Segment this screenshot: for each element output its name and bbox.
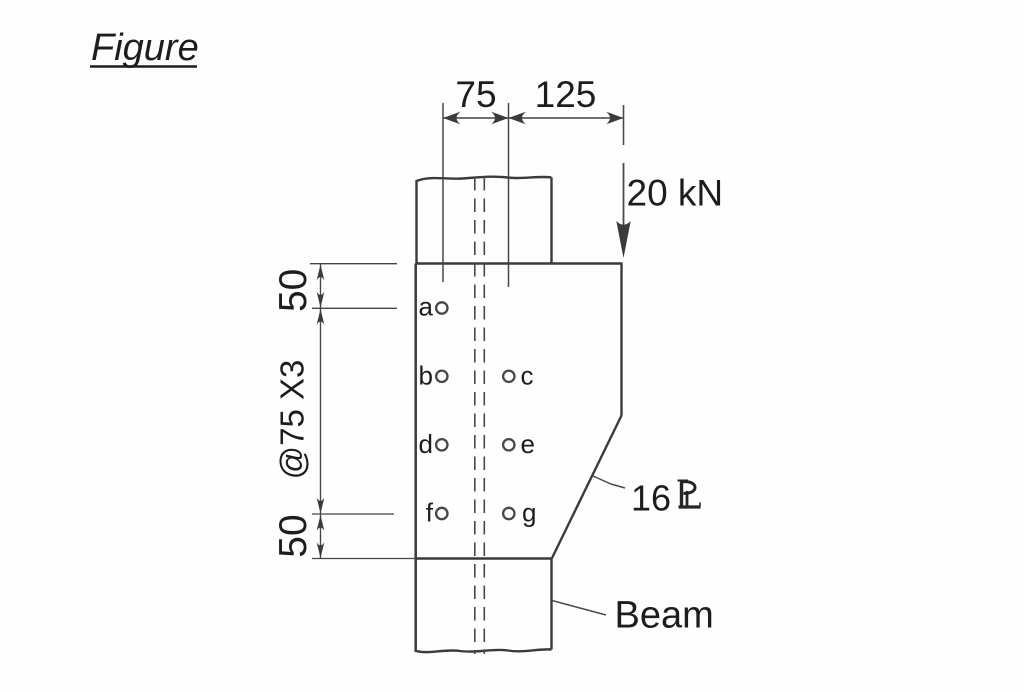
- svg-text:@75 X3: @75 X3: [274, 360, 311, 480]
- leader line to Beam: [552, 601, 606, 616]
- arrow left tip at 508.5 (125 dim): [509, 112, 527, 125]
- svg-text:16: 16: [631, 478, 671, 519]
- svg-text:c: c: [521, 360, 534, 390]
- bolt hole d: [436, 439, 447, 450]
- arrow up tip 514.5 (seg3): [317, 515, 325, 531]
- extension line at x=443 (75 dim left): [442, 103, 444, 282]
- gusset plate right edge: [620, 264, 622, 416]
- bolt gauge centerline right (dashed): [483, 177, 485, 654]
- plate symbol PL: [678, 481, 701, 508]
- bolt hole c: [503, 371, 514, 382]
- left extension line y=308 (row a): [312, 307, 397, 309]
- arrow up tip 263.7: [317, 265, 325, 281]
- 20 kN force line dashed upper part: [623, 105, 625, 145]
- top member (column stub) wavy break top edge: [417, 177, 552, 181]
- top dimension line y=118: [443, 117, 624, 119]
- bolt hole a: [436, 302, 447, 313]
- bolt hole b: [436, 371, 447, 382]
- beam wavy break bottom edge: [415, 649, 552, 652]
- top member right edge: [550, 178, 552, 264]
- left extension line y=263.5: [310, 263, 397, 265]
- bolt hole e: [503, 439, 514, 450]
- left vertical dimension line x=320.5: [320, 264, 322, 559]
- gusset plate / beam left edge: [414, 264, 417, 652]
- gusset plate top edge: [416, 262, 623, 265]
- bolt hole f: [436, 508, 447, 519]
- arrow up tip 308.5 (seg2): [317, 309, 325, 325]
- leader line to 16 PL: [593, 476, 625, 488]
- arrow down tip 558 (seg3): [317, 542, 325, 558]
- svg-text:b: b: [419, 360, 433, 390]
- svg-text:a: a: [419, 292, 434, 322]
- arrow right tip at 508.5 (75 dim): [491, 112, 509, 125]
- arrow down tip 308 (seg1): [317, 292, 325, 308]
- top member left edge: [415, 180, 417, 264]
- 20 kN arrowhead: [616, 221, 630, 258]
- svg-text:d: d: [419, 429, 433, 459]
- arrow right tip at 623.5 (125 dim): [606, 112, 624, 125]
- bolt hole g: [503, 508, 514, 519]
- gusset plate bottom / beam top edge: [416, 557, 553, 560]
- svg-text:75: 75: [455, 74, 496, 115]
- title underline: [90, 65, 197, 67]
- svg-text:125: 125: [535, 74, 597, 115]
- extension line at x=508.5 (75/125 dim middle): [508, 103, 510, 287]
- svg-text:e: e: [521, 429, 535, 459]
- svg-text:Figure: Figure: [91, 27, 199, 69]
- bolt gauge centerline left (dashed): [474, 177, 476, 654]
- gusset plate sloped edge: [552, 416, 622, 559]
- left extension line y=558.5 (bottom): [312, 558, 416, 560]
- svg-text:20 kN: 20 kN: [627, 173, 724, 214]
- svg-text:50: 50: [272, 514, 315, 557]
- 20 kN force line solid: [623, 163, 625, 232]
- svg-text:g: g: [522, 498, 536, 528]
- left extension line y=514 (row f): [312, 513, 394, 515]
- svg-text:50: 50: [272, 269, 315, 312]
- beam right edge: [550, 559, 552, 650]
- arrow left tip at 443: [443, 112, 461, 125]
- arrow down tip 513.5 (seg2): [317, 498, 325, 514]
- svg-text:Beam: Beam: [615, 595, 714, 637]
- svg-text:f: f: [426, 498, 434, 528]
